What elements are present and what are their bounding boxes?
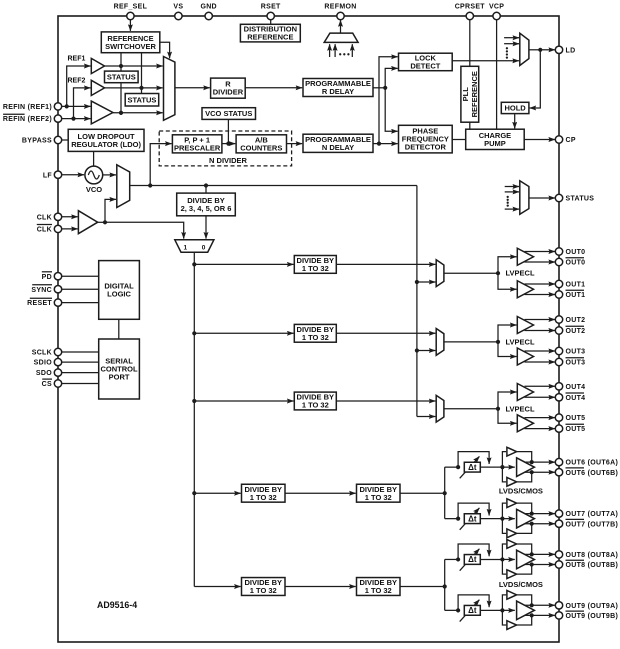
wire divider1 to divider2 OUT6/OUT7: [285, 492, 356, 494]
driver LVDS OUT7: [517, 509, 535, 528]
pin SDO: [36, 369, 62, 377]
wire driver to OUT6B pin: [525, 471, 556, 473]
svg-text:OUT0: OUT0: [566, 249, 586, 256]
wire CLK pin to buffer: [62, 216, 78, 218]
pin GND: [200, 3, 216, 19]
wire driver to OUT9A pin: [525, 604, 556, 606]
wire STATUS mux input 2: [505, 191, 519, 193]
mux VCO divided select (1/0): [175, 240, 214, 252]
svg-text:Δt: Δt: [468, 514, 477, 523]
wire delay bypass OUT7: [458, 503, 489, 519]
wire LD mux input 1: [504, 37, 519, 39]
pin SYNC (active low): [31, 285, 61, 294]
pin REFIN (REF1): [3, 103, 62, 111]
delay adjust dt OUT9: [460, 600, 481, 622]
delay adjust dt OUT8: [460, 549, 481, 571]
svg-text:Δt: Δt: [468, 606, 477, 615]
block PHASE FREQUENCY DETECTOR: [399, 125, 453, 153]
svg-text:OUT4: OUT4: [566, 395, 586, 402]
wire trunk to divide-by-2-6: [205, 186, 207, 194]
pin CS (active low): [42, 379, 62, 388]
wire divide-by-2-6 to mux 0 input: [205, 216, 207, 239]
dashed box N DIVIDER: [159, 131, 291, 166]
svg-text:1 TO 32: 1 TO 32: [302, 333, 329, 342]
svg-text:VCO: VCO: [86, 185, 102, 194]
buffer REFIN differential: [91, 101, 113, 124]
svg-text:OUT3: OUT3: [566, 360, 586, 367]
wire driver to OUT1 pin: [525, 283, 556, 285]
wire driver to OUT2-bar pin: [525, 330, 556, 332]
wire N delay to lock detect and PFD: [373, 57, 398, 146]
svg-text:GND: GND: [200, 3, 216, 10]
svg-text:REGULATOR (LDO): REGULATOR (LDO): [71, 140, 141, 149]
wire CLKbar pin to buffer: [62, 228, 78, 230]
wire driver to OUT6A pin: [525, 461, 556, 463]
svg-text:DETECT: DETECT: [410, 62, 440, 71]
wire REFMON mux output: [340, 20, 342, 33]
block A/B COUNTERS: [236, 135, 286, 153]
svg-text:1: 1: [183, 244, 187, 251]
wire divider2 to delay blocks OUT6/OUT7: [400, 467, 447, 519]
wire delay bypass OUT9: [458, 595, 489, 611]
wire REFMON mux input 2: [334, 44, 336, 57]
svg-text:OUT3: OUT3: [566, 349, 586, 356]
svg-text:R DELAY: R DELAY: [322, 87, 354, 96]
wire A/B counters to N delay: [287, 143, 303, 145]
svg-text:AD9516-4: AD9516-4: [97, 600, 137, 610]
driver CMOS A OUT6: [502, 447, 533, 467]
svg-text:1 TO 32: 1 TO 32: [365, 586, 392, 595]
svg-text:0: 0: [202, 244, 206, 251]
wire STATUS mux input n: [505, 208, 519, 210]
block LOW DROPOUT REGULATOR (LDO): [68, 129, 144, 151]
pin OUT8 (OUT8A): [555, 551, 618, 559]
svg-text:LD: LD: [566, 47, 576, 54]
wire VCO status tap: [226, 119, 230, 145]
pin CPRSET: [455, 3, 486, 19]
pin OUT5: [555, 414, 585, 422]
svg-text:VCO STATUS: VCO STATUS: [205, 109, 252, 118]
wire driver to OUT3-bar pin: [525, 361, 556, 363]
svg-text:OUT6 (OUT6A): OUT6 (OUT6A): [566, 460, 619, 467]
block DIGITAL LOGIC: [99, 261, 140, 320]
svg-text:OUT0: OUT0: [566, 260, 586, 267]
label LVPECL group 2: [506, 404, 535, 413]
svg-text:SDO: SDO: [36, 370, 52, 377]
wire charge pump to CP pin: [524, 139, 555, 141]
svg-text:Δt: Δt: [468, 463, 477, 472]
svg-text:VCP: VCP: [489, 3, 504, 10]
wire CPRSET to PLL reference: [469, 20, 471, 67]
svg-text:SCLK: SCLK: [32, 350, 52, 357]
driver LVDS OUT8: [517, 550, 535, 569]
wire driver to OUT2 pin: [525, 319, 556, 321]
svg-text:RESET: RESET: [27, 300, 52, 307]
block DIVIDE BY 1 TO 32 (OUT0/OUT1): [294, 256, 336, 274]
buffer REF2: [91, 80, 104, 95]
wire PD to digital logic: [62, 275, 99, 277]
pin OUT1: [555, 280, 585, 288]
wire SDIO to serial port: [62, 361, 99, 363]
svg-text:REF_SEL: REF_SEL: [114, 3, 148, 10]
svg-text:OUT8 (OUT8B): OUT8 (OUT8B): [566, 562, 619, 569]
wire REFMON mux input 1: [329, 44, 331, 57]
node STATUS mux input dots: [507, 196, 509, 207]
pin OUT5-bar: [555, 424, 585, 433]
wire PFD to charge pump: [452, 139, 466, 141]
svg-text:REF2: REF2: [67, 78, 85, 85]
svg-text:REFIN (REF2): REFIN (REF2): [3, 116, 52, 123]
buffer CLK input: [78, 211, 97, 234]
svg-text:1 TO 32: 1 TO 32: [302, 264, 329, 273]
svg-text:OUT7 (OUT7B): OUT7 (OUT7B): [566, 521, 619, 528]
wire SCLK to serial port: [62, 351, 99, 353]
block PROGRAMMABLE R DELAY: [303, 79, 373, 97]
svg-text:REF1: REF1: [67, 56, 85, 63]
svg-text:DETECTOR: DETECTOR: [405, 143, 447, 152]
wire RESET to digital logic: [62, 302, 99, 304]
wire REFIN buffer to ref mux: [113, 111, 163, 115]
block SERIAL CONTROL PORT: [99, 339, 140, 399]
wire lock detect to LD mux: [452, 60, 519, 62]
pin SDIO: [34, 358, 62, 366]
svg-text:STATUS: STATUS: [566, 196, 595, 203]
wire status tap REF1 line: [119, 53, 123, 71]
svg-text:VS: VS: [173, 3, 183, 10]
driver LVPECL OUT2: [517, 317, 533, 334]
block R DIVIDER: [211, 78, 246, 98]
mux LD monitor: [520, 33, 529, 65]
driver LVPECL OUT3: [517, 348, 533, 365]
svg-text:SDIO: SDIO: [34, 360, 53, 367]
label REF1: [67, 56, 85, 63]
pin STATUS: [555, 194, 594, 202]
pin REF_SEL: [114, 3, 148, 19]
node LD mux input dots: [506, 47, 508, 59]
driver CMOS B OUT9: [502, 610, 533, 629]
wire REF2 buffer to ref mux: [105, 87, 163, 89]
pin CP: [555, 136, 576, 144]
block STATUS (REF1 monitor): [105, 71, 139, 83]
mux clock select (VCO/CLK): [117, 165, 130, 208]
block VCO STATUS: [202, 108, 256, 120]
svg-text:PUMP: PUMP: [484, 139, 506, 148]
block DISTRIBUTION REFERENCE: [240, 24, 300, 42]
pin OUT6 (OUT6B)-bar: [555, 468, 618, 477]
driver LVDS OUT9: [517, 601, 535, 620]
svg-text:LVDS/CMOS: LVDS/CMOS: [499, 486, 543, 495]
label LVDS/CMOS group 1: [499, 486, 543, 495]
svg-text:LF: LF: [43, 172, 53, 179]
driver LVPECL OUT0: [517, 248, 533, 265]
wire delay bypass OUT8: [458, 544, 489, 560]
wire BYPASS to LDO: [62, 139, 69, 141]
wire vco trunk to channel mux ch2: [415, 348, 436, 352]
pin VS: [173, 3, 183, 19]
wire driver to OUT7B pin: [525, 523, 556, 525]
svg-text:STATUS: STATUS: [128, 96, 157, 105]
wire channel trunk vertical: [193, 252, 195, 586]
wire REFIN (REF2) pin to buffer: [62, 117, 91, 121]
svg-text:CLK: CLK: [37, 227, 52, 234]
pin SCLK: [32, 348, 62, 356]
pin RSET: [261, 3, 281, 19]
wire RSET to distribution reference: [270, 20, 272, 25]
wire VCO to clock mux: [103, 174, 116, 176]
block DIVIDE BY 1 TO 32 (OUT2/OUT3): [294, 324, 336, 342]
pin OUT6 (OUT6A): [555, 458, 618, 466]
oscillator VCO: [85, 166, 103, 194]
wire feed to delay OUT7: [445, 517, 461, 521]
wire delay to LVDS driver OUT8: [480, 557, 515, 561]
block REFERENCE SWITCHOVER: [101, 32, 160, 53]
wire STATUS mux input 1: [505, 186, 519, 188]
svg-text:OUT9 (OUT9B): OUT9 (OUT9B): [566, 613, 619, 620]
wire prescaler to A/B counters: [222, 143, 235, 145]
wire clock mux output trunk: [130, 183, 417, 187]
block DIVIDE BY 1 TO 32 (OUT8/OUT9 second): [357, 578, 401, 596]
pin OUT1-bar: [555, 290, 585, 299]
wire trunk branch to divider ch4: [192, 399, 293, 403]
driver CMOS B OUT7: [502, 519, 533, 538]
label LVPECL group 0: [506, 269, 535, 278]
pin LD: [555, 46, 575, 54]
driver CMOS A OUT9: [502, 590, 533, 610]
delay adjust dt OUT6: [460, 456, 481, 478]
pin OUT9 (OUT9B)-bar: [555, 611, 618, 620]
wire driver to OUT4-bar pin: [525, 396, 556, 398]
label REF2: [67, 78, 85, 85]
svg-text:1 TO 32: 1 TO 32: [302, 401, 329, 410]
pin PD (active low): [42, 272, 62, 281]
wire vco trunk to channel mux ch4: [417, 416, 436, 418]
pin CLK (active low): [37, 225, 62, 234]
svg-text:OUT5: OUT5: [566, 426, 586, 433]
svg-text:OUT1: OUT1: [566, 282, 586, 289]
driver LVPECL OUT1: [517, 281, 533, 298]
wire channel mux to drivers OUT0: [444, 257, 517, 290]
wire driver to OUT8B pin: [525, 564, 556, 566]
wire divider to channel mux ch2: [336, 332, 435, 334]
wire REFMON mux input n: [351, 44, 353, 57]
svg-text:COUNTERS: COUNTERS: [240, 143, 282, 152]
wire driver to OUT9B pin: [525, 614, 556, 616]
wire REF2 input: [74, 88, 91, 119]
wire LD mux to LD pin: [529, 48, 555, 52]
svg-text:1 TO 32: 1 TO 32: [250, 493, 277, 502]
wire trunk branch to divider ch2: [192, 331, 293, 335]
driver LVDS OUT6: [517, 458, 535, 477]
wire delay bypass OUT6: [458, 452, 489, 468]
wire REFIN (REF1) pin to buffer: [62, 104, 91, 108]
wire LD node to HOLD: [530, 50, 541, 108]
wire REF1 input: [67, 66, 91, 106]
driver LVPECL OUT4: [517, 384, 533, 401]
wire ref mux to R divider: [175, 87, 210, 89]
wire digital logic to serial port: [118, 319, 120, 339]
wire driver to OUT0-bar pin: [525, 261, 556, 263]
wire SYNC to digital logic: [62, 288, 99, 290]
svg-text:OUT6 (OUT6B): OUT6 (OUT6B): [566, 470, 619, 477]
block DIVIDE BY 1 TO 32 (OUT6/OUT7 first): [242, 484, 286, 502]
driver CMOS B OUT6: [502, 467, 533, 486]
buffer REF1: [91, 58, 104, 73]
wire trunk branch row OUT6/OUT7: [192, 491, 241, 495]
pin LF: [43, 171, 62, 179]
wire vco trunk vertical right: [416, 186, 418, 417]
svg-text:LVPECL: LVPECL: [506, 404, 535, 413]
wire trunk branch row OUT8/OUT9: [194, 586, 240, 588]
chip outline border AD9516-4: [58, 16, 559, 642]
svg-text:LVPECL: LVPECL: [506, 269, 535, 278]
wire VCP to charge pump: [496, 20, 498, 130]
mux reference select: [164, 57, 175, 121]
wire REF_SEL to reference switchover: [129, 20, 131, 31]
block DIVIDE BY 2,3,4,5 OR 6: [177, 193, 236, 216]
wire driver to OUT1-bar pin: [525, 294, 556, 296]
wire driver to OUT4 pin: [525, 385, 556, 387]
pin OUT2-bar: [555, 326, 585, 335]
wire PLL reference to charge pump: [469, 122, 471, 129]
svg-text:REFERENCE: REFERENCE: [247, 33, 293, 42]
mux channel select OUT4/OUT5: [436, 395, 444, 422]
wire REF1 buffer to ref mux: [105, 65, 163, 67]
wire feed to delay OUT6: [445, 465, 461, 469]
wire vco trunk to channel mux ch0: [415, 280, 436, 284]
block HOLD: [501, 102, 529, 113]
svg-text:OUT7 (OUT7A): OUT7 (OUT7A): [566, 511, 619, 518]
driver CMOS B OUT8: [502, 559, 533, 578]
block PROGRAMMABLE N DELAY: [303, 134, 373, 152]
wire driver to OUT3 pin: [525, 350, 556, 352]
wire divider to channel mux ch4: [336, 400, 435, 402]
block DIVIDE BY 1 TO 32 (OUT8/OUT9 first): [242, 578, 286, 596]
wire driver to OUT5 pin: [525, 417, 556, 419]
block LOCK DETECT: [399, 53, 453, 70]
pin BYPASS: [22, 136, 62, 144]
svg-text:SWITCHOVER: SWITCHOVER: [105, 42, 156, 51]
pin OUT7 (OUT7A): [555, 510, 618, 518]
pin OUT2: [555, 316, 585, 324]
mux channel select OUT0/OUT1: [436, 260, 444, 287]
svg-text:REFMON: REFMON: [324, 3, 356, 10]
svg-text:N DELAY: N DELAY: [322, 143, 354, 152]
svg-text:OUT1: OUT1: [566, 292, 586, 299]
block DIVIDE BY 1 TO 32 (OUT4/OUT5): [294, 392, 336, 410]
mux REFMON monitor: [324, 33, 358, 42]
pin RESET (active low): [27, 298, 62, 307]
svg-text:LOGIC: LOGIC: [107, 290, 131, 299]
svg-text:CP: CP: [566, 137, 576, 144]
pin OUT8 (OUT8B)-bar: [555, 560, 618, 569]
pin OUT0-bar: [555, 258, 585, 267]
svg-text:OUT2: OUT2: [566, 328, 586, 335]
svg-text:CS: CS: [42, 381, 52, 388]
wire delay to LVDS driver OUT7: [480, 517, 515, 521]
svg-text:RSET: RSET: [261, 3, 281, 10]
svg-text:REFIN (REF1): REFIN (REF1): [3, 104, 52, 111]
block STATUS (REF2 monitor): [125, 94, 159, 107]
pin OUT3: [555, 347, 585, 355]
wire CS to serial port: [62, 383, 99, 385]
wire delay to LVDS driver OUT6: [480, 465, 515, 469]
label AD9516-4: [97, 600, 137, 610]
wire channel mux to drivers OUT2: [444, 325, 517, 357]
block DIVIDE BY 1 TO 32 (OUT6/OUT7 second): [357, 484, 401, 502]
pin CLK: [37, 213, 62, 221]
mux STATUS monitor: [520, 181, 529, 215]
wire status1 to REFIN line: [119, 83, 123, 115]
label LVPECL group 1: [506, 337, 535, 346]
wire SDO to serial port: [62, 372, 99, 374]
wire driver to OUT0 pin: [525, 251, 556, 253]
svg-text:OUT8 (OUT8A): OUT8 (OUT8A): [566, 552, 619, 559]
delay adjust dt OUT7: [460, 508, 481, 530]
node REFMON mux input dots: [339, 53, 349, 55]
pin OUT9 (OUT9A): [555, 602, 618, 610]
svg-text:LVPECL: LVPECL: [506, 337, 535, 346]
wire driver to OUT7A pin: [525, 513, 556, 515]
pin OUT4: [555, 383, 585, 391]
pin OUT0: [555, 248, 585, 256]
pin REFIN (REF2) (active low): [3, 114, 62, 123]
block PLL REFERENCE: [461, 66, 479, 122]
wire LF to VCO: [62, 174, 85, 176]
wire divider1 to divider2 OUT8/OUT9: [285, 586, 356, 588]
svg-text:1 TO 32: 1 TO 32: [250, 586, 277, 595]
wire R delay to lock detect and PFD: [373, 68, 398, 131]
wire LDO to VCO: [93, 151, 95, 166]
svg-text:PORT: PORT: [109, 373, 130, 382]
svg-text:2, 3, 4, 5, OR 6: 2, 3, 4, 5, OR 6: [181, 204, 232, 213]
svg-text:SYNC: SYNC: [31, 287, 52, 294]
driver LVPECL OUT5: [517, 415, 533, 432]
wire divider2 to delay blocks OUT8/OUT9: [400, 559, 447, 610]
svg-text:OUT9 (OUT9A): OUT9 (OUT9A): [566, 603, 619, 610]
wire divider to channel mux ch0: [336, 263, 435, 265]
svg-text:Δt: Δt: [468, 555, 477, 564]
wire trunk branch to divider ch0: [192, 262, 293, 266]
pin OUT7 (OUT7B)-bar: [555, 519, 618, 528]
pin OUT3-bar: [555, 358, 585, 367]
pin OUT4-bar: [555, 393, 585, 402]
block P, P + 1 PRESCALER: [172, 135, 222, 153]
block CHARGE PUMP: [466, 129, 525, 149]
svg-text:STATUS: STATUS: [107, 73, 136, 82]
svg-text:PRESCALER: PRESCALER: [174, 143, 221, 152]
wire trunk to prescaler: [150, 144, 171, 186]
wire reference switchover to ref mux select: [160, 42, 170, 58]
wire R divider to R delay: [245, 87, 302, 89]
wire clk bypass to mux 1 input: [105, 222, 184, 238]
mux channel select OUT2/OUT3: [436, 329, 444, 356]
wire channel mux to drivers OUT4: [444, 392, 517, 423]
wire HOLD to charge pump: [514, 114, 516, 129]
wire feed to delay OUT9: [445, 608, 461, 612]
svg-text:CPRSET: CPRSET: [455, 3, 486, 10]
wire feed to delay OUT8: [445, 557, 461, 561]
svg-text:PD: PD: [42, 274, 52, 281]
svg-text:HOLD: HOLD: [504, 104, 526, 113]
wire CLK buffer to clock mux: [98, 199, 116, 224]
svg-text:N DIVIDER: N DIVIDER: [209, 156, 248, 165]
wire status tap REF2 line: [139, 53, 143, 94]
driver CMOS A OUT7: [502, 499, 533, 519]
pin VCP: [489, 3, 504, 19]
svg-text:CLK: CLK: [37, 214, 52, 221]
wire driver to OUT5-bar pin: [525, 428, 556, 430]
wire driver to OUT8A pin: [525, 553, 556, 555]
